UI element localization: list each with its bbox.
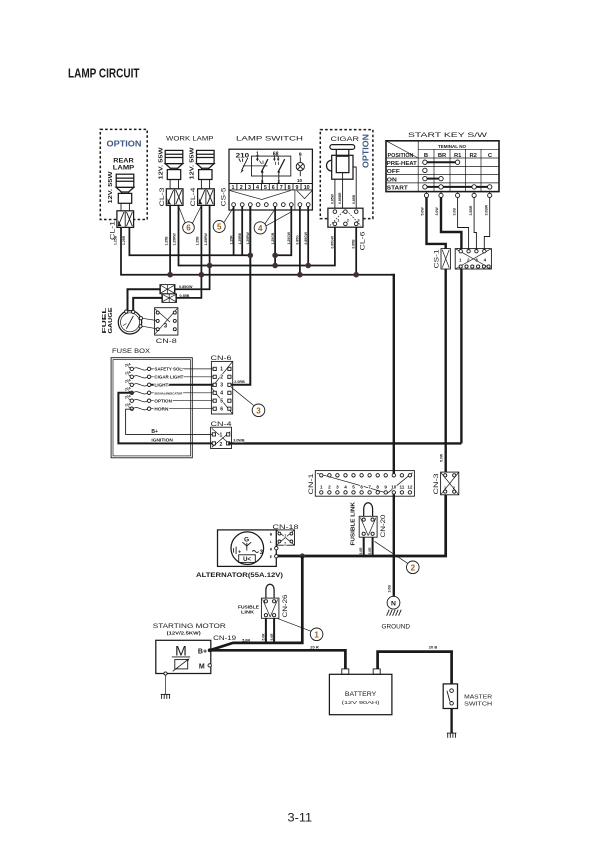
svg-text:LAMP: LAMP [113,165,135,171]
svg-text:0.85W: 0.85W [331,193,335,204]
svg-text:12V. 55W: 12V. 55W [158,147,164,180]
wire CN-3 to feed bus [276,495,445,556]
svg-text:0.85GW: 0.85GW [330,235,334,248]
svg-text:START KEY S/W: START KEY S/W [408,132,488,139]
svg-text:LIGHT: LIGHT [154,382,168,387]
fuse 20A OPTION [134,399,148,401]
alternator [218,530,277,567]
svg-text:SIGNAL/INDICATOR: SIGNAL/INDICATOR [154,391,183,395]
svg-text:4: 4 [220,391,223,397]
wire CL-4 left pin down to fuel gauge connector [177,205,202,298]
svg-text:MASTER: MASTER [464,695,492,701]
svg-text:1: 1 [314,630,319,639]
connector CL-6 [328,208,363,227]
svg-text:10: 10 [304,185,310,191]
svg-text:LAMP CIRCUIT: LAMP CIRCUIT [68,67,140,81]
wire CL-3 right pin / bus B [179,205,335,266]
wire CS-1 down to CN-3 [445,269,447,472]
svg-text:3: 3 [256,406,261,415]
wire CL-4 right pin down to fuel gauge connector [175,205,210,290]
switch link line [243,165,268,167]
lamp switch terminal strip pins 1-10 [229,184,312,190]
svg-text:10: 10 [391,484,397,489]
wire switch pin 6 [274,207,276,266]
fuse box internal ignition wire [118,393,213,444]
svg-text:HORN: HORN [154,406,168,411]
svg-text:1.25B: 1.25B [196,236,200,246]
svg-text:SWITCH: SWITCH [464,702,492,708]
svg-text:FUSE BOX: FUSE BOX [112,348,151,355]
svg-text:6: 6 [360,484,363,489]
svg-text:3.0BW: 3.0BW [485,204,489,215]
svg-text:CIGAR: CIGAR [331,136,360,143]
svg-text:5.0R: 5.0R [270,633,274,641]
wires gauge to CN-8 [142,318,157,320]
svg-text:SAFETY SOL.: SAFETY SOL. [154,367,183,372]
fuse 20A LIGHT [134,384,148,386]
junction dots on buses [248,253,254,259]
svg-text:0.85GW: 0.85GW [179,285,193,289]
svg-text:1.25B: 1.25B [114,235,118,245]
svg-text:68: 68 [273,151,279,157]
svg-text:5.0W: 5.0W [439,453,443,462]
svg-text:4: 4 [256,185,259,191]
svg-text:3.0W: 3.0W [435,207,439,216]
svg-text:1.25RB: 1.25RB [238,232,242,244]
svg-text:OPTION: OPTION [107,140,142,149]
contacts OFF row [423,168,427,172]
ground node N [387,596,400,609]
svg-text:CN-1: CN-1 [308,473,315,495]
svg-text:9: 9 [296,185,299,191]
svg-text:CN-3: CN-3 [433,473,440,495]
svg-text:1.25RW: 1.25RW [204,233,208,246]
svg-text:BR: BR [438,153,447,159]
svg-text:3: 3 [220,383,223,389]
svg-text:OPTION: OPTION [362,134,371,168]
svg-text:B+: B+ [151,429,158,435]
svg-text:REAR: REAR [113,159,134,165]
svg-text:2: 2 [411,563,416,572]
option dashed box (rear lamp) [100,129,147,219]
wire 20R starting motor to battery [210,650,346,669]
wire switch pin 2 [241,207,243,256]
wire switch pin 10 [307,207,309,266]
svg-text:2: 2 [220,442,223,448]
strip funnel [229,190,312,210]
svg-text:1.25RW: 1.25RW [246,232,250,245]
connector CN-8 [155,308,178,335]
svg-text:TEMINAL NO: TEMINAL NO [438,144,466,150]
lamp bulb work-1 12V 55W [165,150,183,179]
svg-text:1.25R: 1.25R [229,235,233,245]
svg-text:6: 6 [220,407,223,413]
wire CL-1 left pin to ground bus C [121,227,391,274]
CS-5 connector contact row [232,203,310,207]
svg-text:CL-4: CL-4 [190,187,197,207]
callout 1 [278,619,311,632]
svg-text:(12V/2.5KW): (12V/2.5KW) [167,631,202,636]
svg-text:BATTERY: BATTERY [345,691,377,698]
svg-text:7: 7 [280,185,283,191]
svg-text:1: 1 [232,185,235,191]
svg-text:1.25RW: 1.25RW [173,233,177,246]
wire switch pin 8 bridge [275,207,291,256]
fuse 15A HORN [134,407,148,409]
svg-text:U<: U< [243,557,251,563]
svg-text:5.0R: 5.0R [368,547,372,555]
lamp switch CS-5 body [229,149,312,210]
wire R2 3.5BR [474,198,476,249]
svg-text:20 R: 20 R [310,645,319,650]
svg-text:0.85G: 0.85G [296,235,300,245]
inline connector (gauge ground) [162,294,177,303]
svg-text:(12V 90AH): (12V 90AH) [342,700,381,706]
wire LIGHT fuse to CN-6 pin3 (thick) [151,384,214,386]
svg-text:START: START [387,186,408,192]
start key switch table [386,141,499,192]
svg-text:3-11: 3-11 [288,811,313,825]
fusible link CN-20 [364,503,373,517]
svg-text:CN-20: CN-20 [380,514,387,538]
starting motor [156,640,211,673]
svg-text:N: N [391,601,396,608]
connector CL-1 [117,211,134,228]
lamp bulb work-2 12V 55W [197,150,215,179]
svg-text:CIGAR LIGHT: CIGAR LIGHT [154,374,183,379]
connector CN-3 [441,472,459,495]
svg-text:1: 1 [220,433,223,439]
svg-text:0.85B: 0.85B [180,294,190,298]
svg-text:IGNITION: IGNITION [151,437,173,442]
connector CN-1 [315,471,414,497]
fuse 20A SAFETY SOL. [134,368,148,370]
svg-text:5: 5 [352,484,355,489]
svg-text:1: 1 [220,367,223,373]
fuse 15A CIGAR LIGHT [134,376,148,378]
wire fuel gauge feed (0.85GW) [128,289,160,310]
contacts ON row [426,178,440,180]
fuel gauge [118,311,141,334]
wire cigar pin 3 [353,167,356,212]
svg-text:12: 12 [407,484,413,489]
starting motor ground [164,672,167,675]
svg-text:3.0WB: 3.0WB [233,439,245,443]
svg-text:PRE-HEAT: PRE-HEAT [387,161,417,167]
lamp bulb rear 12V 55W [116,174,134,203]
wire master switch to ground [450,709,452,734]
svg-text:20 B: 20 B [429,645,438,650]
svg-text:B+: B+ [198,649,207,656]
wire work lamp 1 to CL-3 [169,180,171,189]
svg-text:5: 5 [217,223,222,232]
wire CN-4 pin2 to key connector (3.0WB) [228,442,461,444]
svg-text:1: 1 [284,534,286,538]
svg-text:CN-19: CN-19 [213,635,237,642]
svg-text:0.85BR: 0.85BR [338,192,342,204]
svg-text:3.0B: 3.0B [388,585,392,593]
svg-text:8: 8 [288,185,291,191]
svg-text:CN-26: CN-26 [282,594,289,618]
inline connector (gauge feed) [160,285,175,294]
svg-text:LAMP SWITCH: LAMP SWITCH [236,136,303,143]
svg-text:6: 6 [272,185,275,191]
fuse output wires to CN-6 [151,369,213,409]
svg-text:B: B [424,153,428,159]
svg-text:5.0R: 5.0R [261,633,265,641]
svg-text:ON: ON [387,177,398,183]
svg-text:2: 2 [328,484,331,489]
callout 6 [179,207,185,223]
svg-text:0.85B: 0.85B [352,239,356,249]
wire fuel gauge ground (0.85B) [133,298,162,311]
cigar option dashed box [320,130,373,219]
wire switch pin 3 to CN-6 pin 3 (2.0RB) [229,207,250,385]
svg-text:10: 10 [297,178,303,183]
callout 4 [265,211,274,224]
svg-text:ALTERNATOR(55A.12V): ALTERNATOR(55A.12V) [196,573,283,579]
svg-text:CL-6: CL-6 [360,231,367,251]
svg-text:LINK: LINK [241,610,255,616]
wire switch pin 9 [299,207,301,275]
svg-text:7: 7 [368,484,371,489]
wire cigar pin 2 [342,173,344,212]
svg-text:WORK LAMP: WORK LAMP [166,136,214,143]
svg-text:CS-5: CS-5 [220,187,227,207]
svg-text:11: 11 [399,484,404,489]
wires CN-26 to B+ wire [265,618,267,643]
svg-text:1.25GR: 1.25GR [271,232,275,244]
cigar lighter symbol [327,145,355,180]
contacts START row [426,186,489,188]
svg-text:12V. 55W: 12V. 55W [108,171,114,204]
fuse 20A SIGNAL/INDICATOR [134,392,148,394]
svg-text:OFF: OFF [387,169,400,175]
indicator lamp in switch [296,157,304,176]
svg-text:1: 1 [444,486,446,490]
connector CL-3 [166,189,183,206]
svg-text:9: 9 [384,484,387,489]
wire switch pin 1 [233,207,235,256]
svg-text:0.85B: 0.85B [352,194,356,204]
wire rear lamp to CL-1 [120,203,122,211]
svg-text:POSITION: POSITION [388,153,414,159]
start key terminals below table [426,192,428,194]
svg-text:M: M [199,663,205,670]
svg-text:2: 2 [453,486,455,490]
svg-text:1.25GW: 1.25GW [287,231,291,244]
wire cigar pin 1 [334,179,336,211]
svg-text:5: 5 [220,399,223,405]
connector CL-4 [198,189,215,206]
svg-text:12V. 55W: 12V. 55W [190,147,196,180]
svg-text:OPTION: OPTION [154,398,172,403]
wire alternator feed down to starting motor B+ [210,556,303,650]
svg-text:2: 2 [240,185,243,191]
wire BR 3.0W [441,198,461,249]
svg-text:GROUND: GROUND [382,624,411,631]
svg-text:0.85GW: 0.85GW [304,231,308,244]
callout 3 [231,387,254,406]
svg-text:CL-3: CL-3 [159,187,166,207]
junction dot alternator B feed [300,553,305,558]
svg-text:R2: R2 [469,153,476,159]
wire CN-1 pin10 to ground N [393,494,395,596]
svg-text:5.0W: 5.0W [420,207,424,216]
fuse box internal B+ wire [126,409,214,434]
svg-text:M: M [175,642,187,658]
svg-text:4: 4 [258,224,263,233]
svg-text:GAUGE: GAUGE [108,307,114,333]
callout 5 [224,208,233,222]
svg-text:2.0RB: 2.0RB [234,380,245,384]
contact lever 2 [278,159,285,172]
battery [342,669,349,674]
fusible link CN-26 [266,584,274,598]
svg-text:8: 8 [376,484,379,489]
svg-text:3: 3 [164,323,168,330]
svg-text:2: 2 [220,375,223,381]
svg-text:R1: R1 [454,153,462,159]
svg-text:3: 3 [248,185,251,191]
wire R1 3.0B [458,198,469,249]
svg-text:STARTING MOTOR: STARTING MOTOR [153,623,226,630]
svg-text:5: 5 [264,185,267,191]
wire key pin1 down [460,269,462,443]
svg-text:4: 4 [344,484,347,489]
svg-text:1.25B: 1.25B [164,236,168,246]
svg-text:5.0R: 5.0R [242,639,250,643]
svg-text:3: 3 [336,484,339,489]
wire B 5.0W [427,198,446,249]
svg-text:G: G [244,537,249,544]
svg-text:2: 2 [284,541,286,545]
connector (key switch 4-pin) [455,249,491,269]
wire C 3.0BW [484,198,489,249]
svg-text:1: 1 [320,484,323,489]
svg-text:CS-1: CS-1 [433,249,440,269]
wire work lamp 2 to CL-4 [200,180,202,189]
svg-text:3.5BR: 3.5BR [469,205,473,215]
contact lever 1 [261,159,268,172]
callout 2 [374,541,407,563]
starter solenoid [175,660,188,669]
wires CN-20 to feed bus [363,537,365,556]
svg-text:CN-8: CN-8 [156,338,178,345]
wire CL-3 left pin to bus C [169,205,171,275]
contacts PRE-HEAT row [426,161,457,163]
svg-text:9: 9 [299,152,302,158]
svg-text:1.25R: 1.25R [122,235,126,245]
svg-text:L: L [270,540,272,544]
wire CL-6 pin 3 to bus C [355,227,357,275]
svg-text:6: 6 [186,224,191,233]
wire 20B battery to master switch [378,652,452,684]
connector CS-1 [441,249,450,269]
switch lever [239,158,248,170]
wire CL-1 right pin to bus A [129,227,250,255]
svg-text:FUSIBLE LINK: FUSIBLE LINK [351,502,357,546]
master switch [443,684,457,709]
svg-text:5.0R: 5.0R [359,547,363,555]
master switch ground [447,733,457,738]
svg-text:3.0B: 3.0B [452,208,456,216]
fuse box outline [111,358,192,458]
